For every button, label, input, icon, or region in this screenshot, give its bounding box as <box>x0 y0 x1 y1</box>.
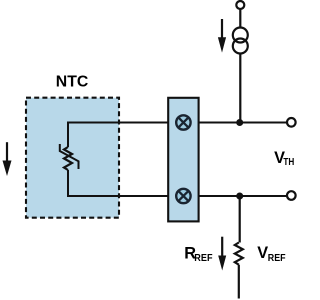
current arrow (left side) <box>3 142 12 176</box>
svg-text:REF: REF <box>194 252 213 264</box>
svg-text:TH: TH <box>283 156 294 168</box>
terminal block (connector rectangle) <box>168 98 198 222</box>
node junction on VREF wire <box>236 193 243 200</box>
wire (resistor RREF to bottom edge) <box>238 265 240 299</box>
thermistor RT (NTC) zigzag <box>64 147 72 170</box>
wire top row (thermistor to terminal block to node) <box>68 123 287 148</box>
terminal (top open circle) <box>236 1 244 9</box>
thermistor diagonal mark <box>60 144 79 169</box>
svg-text:REF: REF <box>268 252 286 264</box>
node junction on VTH wire <box>236 119 243 126</box>
resistor RREF zigzag <box>235 243 243 265</box>
terminal X2 (bottom, circled-X) <box>176 189 190 203</box>
terminal VTH (open circle) <box>287 118 296 127</box>
wire (node to resistor RREF) <box>239 196 241 243</box>
current source I1 (two overlapping circles) <box>233 28 248 54</box>
terminal VREF (open circle) <box>287 191 296 200</box>
wire bottom row (thermistor to terminal block to node) <box>68 170 287 196</box>
wire (current source to node VTH) <box>239 53 241 123</box>
svg-text:V: V <box>257 244 268 262</box>
current arrow (bottom, through RREF) <box>218 237 226 271</box>
NTC enclosure (dashed box) <box>26 98 119 218</box>
current arrow (top) <box>218 19 226 53</box>
svg-text:NTC: NTC <box>56 74 88 91</box>
wire (terminal to current source) <box>239 9 241 28</box>
terminal X1 (top, circled-X) <box>176 115 190 129</box>
